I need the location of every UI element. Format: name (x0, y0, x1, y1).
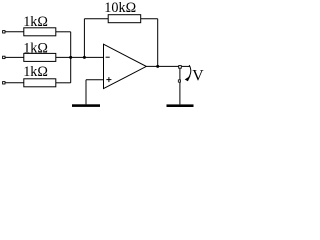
minus node marker on output ground leg (178, 80, 180, 82)
summing bus vertical wire (70, 32, 72, 83)
wire feedback to Rf left (84, 18, 108, 20)
label 1kΩ (R2 value) (23, 40, 48, 56)
resistor Rf 10kΩ (108, 15, 141, 23)
input terminal v1 (3, 31, 5, 33)
svg-text:10kΩ: 10kΩ (104, 0, 136, 16)
output node square (179, 66, 182, 69)
label V (output voltage) (192, 68, 204, 85)
junction dot at feedback tap (83, 56, 86, 59)
wire v1 terminal to R1 (5, 31, 24, 33)
wire R1 to summing bus (56, 31, 71, 33)
wire R3 to summing bus (56, 82, 71, 84)
op-amp U1 triangle (104, 44, 147, 88)
ground bar (output) (167, 104, 194, 107)
voltage probe curved arrow (185, 65, 191, 81)
wire non-inverting down to ground (85, 80, 87, 105)
wire v3 terminal to R3 (5, 82, 24, 84)
op-amp minus sign (106, 56, 110, 58)
resistor R1 1kΩ (24, 28, 56, 36)
wire output down to ground (179, 69, 181, 105)
svg-text:1kΩ: 1kΩ (23, 64, 48, 80)
feedback left vertical wire (83, 19, 85, 58)
junction dot at output feedback (156, 65, 159, 68)
wire v2 terminal to R2 (5, 56, 24, 58)
label 1kΩ (R1 value) (23, 14, 48, 30)
resistor R2 1kΩ (24, 53, 56, 61)
resistor R3 1kΩ (24, 79, 56, 87)
ground bar (non-inverting) (72, 104, 100, 107)
wire output square to probe (182, 65, 190, 67)
svg-text:V: V (192, 68, 204, 85)
feedback right vertical wire (157, 19, 159, 67)
input terminal v2 (3, 56, 5, 58)
wire Rf right to feedback corner (141, 18, 158, 20)
wire op-amp output (146, 65, 178, 67)
op-amp plus sign (106, 77, 111, 82)
label 1kΩ (R3 value) (23, 64, 48, 80)
wire R2 to op-amp inverting input (56, 56, 104, 58)
wire non-inverting input (86, 79, 104, 81)
junction dot at bus and inverting line (69, 56, 72, 59)
label 10kΩ (Rf value) (104, 0, 136, 16)
input terminal v3 (3, 82, 5, 84)
